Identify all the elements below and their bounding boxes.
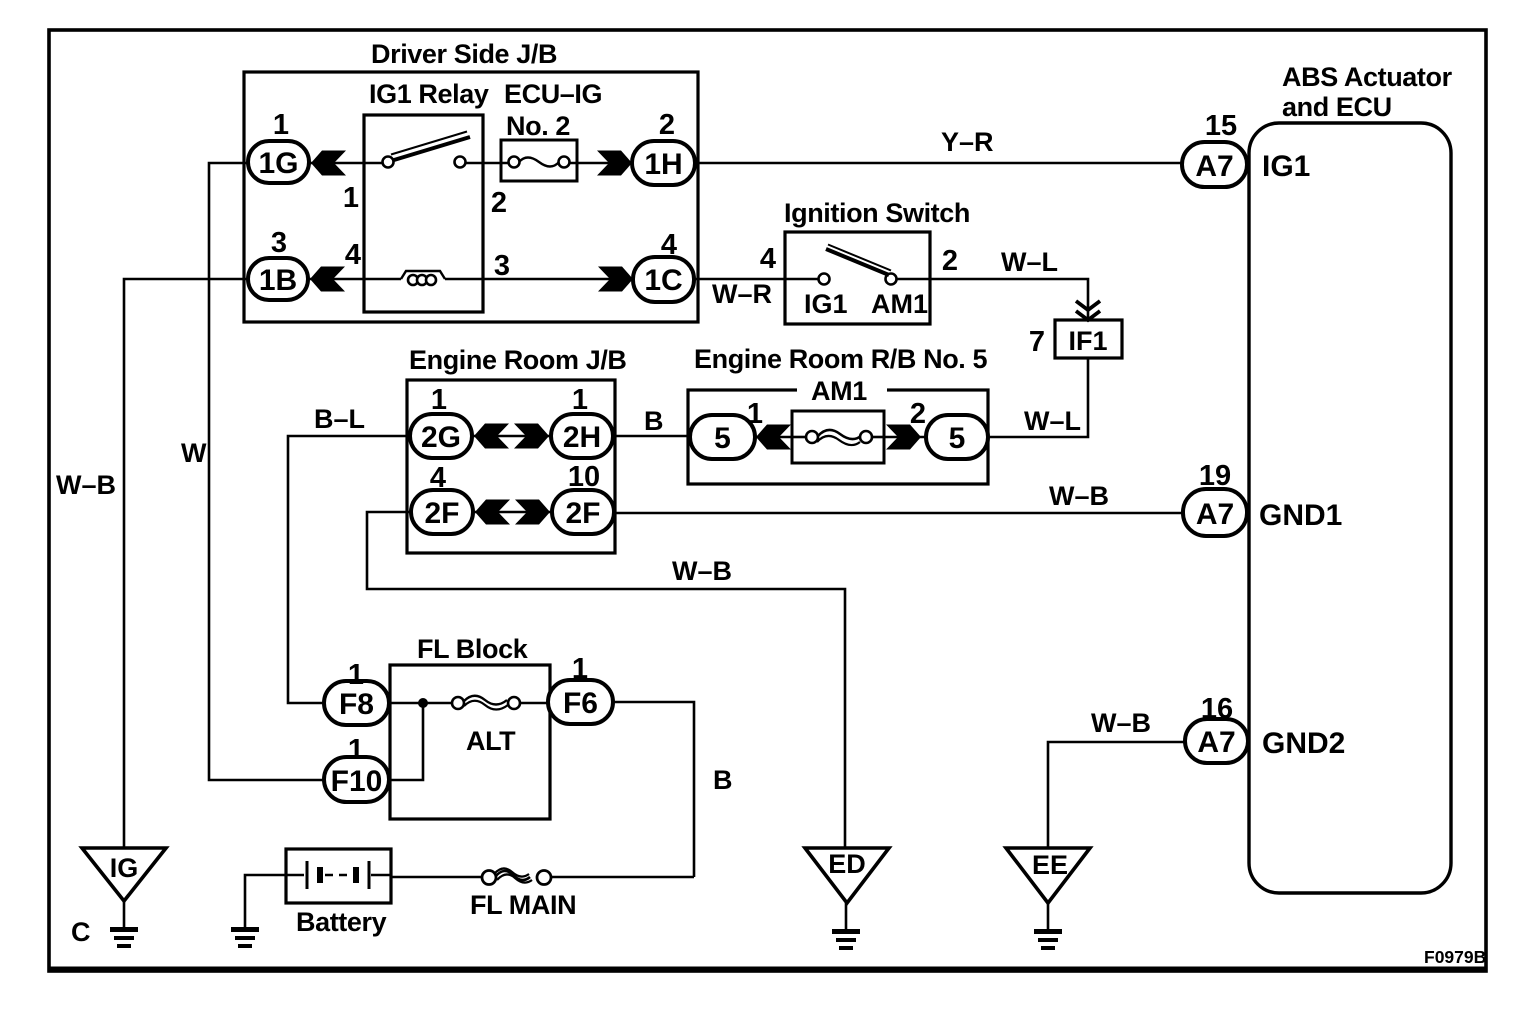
wire W-B 2F right to A7 GND1	[612, 512, 1184, 515]
svg-text:4: 4	[345, 239, 361, 271]
svg-text:2: 2	[942, 245, 958, 277]
ABS Actuator and ECU box	[1249, 123, 1451, 893]
svg-text:C: C	[71, 917, 91, 947]
FL Block box	[390, 665, 550, 819]
wire junction down to F10	[389, 703, 423, 780]
svg-text:IG1: IG1	[804, 289, 848, 319]
svg-text:16: 16	[1201, 693, 1233, 725]
wire ignition switch stubs	[785, 278, 819, 281]
svg-text:ALT: ALT	[466, 726, 516, 756]
wire coil to 1C	[445, 278, 633, 281]
ground symbol under battery	[231, 930, 259, 947]
connector F6	[548, 680, 613, 724]
ground symbol under EE	[1034, 932, 1062, 949]
svg-text:2: 2	[910, 398, 926, 430]
svg-text:W–B: W–B	[1091, 708, 1151, 738]
wire W-L from ignition to IF1	[930, 279, 1088, 320]
connector F8	[324, 681, 389, 725]
Engine Room J/B box	[407, 380, 615, 553]
wire Y-R 1H to A7	[695, 162, 1183, 165]
wire relay row2: 1B to coil	[307, 278, 401, 281]
connector arrow into 1H	[597, 151, 632, 176]
connector arrow into 1G	[311, 151, 346, 176]
svg-text:1: 1	[431, 384, 447, 416]
connector 2F right	[552, 490, 614, 534]
svg-text:1B: 1B	[259, 264, 297, 297]
svg-text:2F: 2F	[565, 497, 600, 530]
wire EE to A7 GND2	[1048, 742, 1186, 849]
wire fuse to 1H	[569, 162, 632, 165]
wire W-B from 1B left, down, to IG ground triangle	[124, 279, 248, 848]
connector F10	[324, 757, 389, 802]
svg-text:Y–R: Y–R	[941, 127, 994, 157]
svg-text:F0979B: F0979B	[1424, 947, 1486, 967]
svg-text:2F: 2F	[424, 497, 459, 530]
connector arrows 2F-2F	[475, 500, 510, 525]
connector 1C	[633, 257, 694, 302]
svg-text:W–L: W–L	[1024, 406, 1081, 436]
svg-text:5: 5	[949, 422, 966, 455]
wire 5 to AM1 fuse	[755, 436, 792, 439]
svg-text:1: 1	[572, 384, 588, 416]
connector A7 pin19	[1183, 489, 1247, 536]
svg-text:1: 1	[747, 398, 763, 430]
fuse AM1	[818, 430, 861, 439]
svg-text:FL Block: FL Block	[417, 634, 529, 664]
connector 1G	[248, 141, 309, 183]
connector 2G	[410, 414, 472, 458]
svg-text:Engine Room J/B: Engine Room J/B	[409, 345, 627, 375]
svg-text:AM1: AM1	[871, 289, 928, 319]
ECU-IG No.2 fuse box	[501, 140, 577, 181]
wire W-R 1C to ignition switch	[694, 278, 785, 281]
wire ED triangle stem	[845, 903, 848, 930]
ground ED triangle	[805, 848, 889, 903]
junction node at FL block	[418, 698, 428, 708]
svg-text:B: B	[713, 765, 733, 795]
connector arrow into 5 right	[886, 425, 921, 450]
svg-text:1: 1	[348, 734, 364, 766]
svg-text:IG1: IG1	[1262, 150, 1310, 183]
fuse ECU-IG No.2	[519, 158, 559, 167]
svg-text:Engine Room R/B No. 5: Engine Room R/B No. 5	[694, 344, 987, 374]
connector arrow into 5 left	[756, 425, 791, 450]
ground EE triangle	[1006, 848, 1090, 903]
svg-text:W–L: W–L	[1001, 247, 1058, 277]
wire EE triangle stem	[1047, 903, 1050, 930]
connector 1B	[248, 258, 308, 300]
svg-text:1C: 1C	[644, 264, 682, 297]
wire battery to FL MAIN	[391, 876, 482, 879]
svg-text:IF1: IF1	[1068, 326, 1107, 356]
svg-text:4: 4	[661, 229, 677, 261]
Battery box	[286, 849, 391, 903]
svg-text:F8: F8	[339, 688, 374, 721]
connector A7 pin15	[1182, 142, 1247, 187]
wire W-B 2F left, down, across, down to ED	[367, 512, 845, 848]
connector 2F left	[411, 490, 473, 534]
svg-text:GND1: GND1	[1259, 499, 1342, 532]
connector arrows 2G-2H	[474, 424, 509, 449]
ground symbol under ED	[832, 932, 860, 949]
svg-text:IG1 Relay: IG1 Relay	[369, 79, 489, 109]
connector 2H	[551, 414, 613, 458]
relay IG1 contact pins	[383, 157, 394, 168]
connector 1H	[632, 141, 695, 185]
svg-text:1: 1	[343, 182, 359, 214]
ground symbol under IG	[110, 930, 138, 947]
svg-text:A7: A7	[1195, 150, 1233, 183]
svg-text:W: W	[181, 438, 207, 468]
svg-text:and ECU: and ECU	[1282, 92, 1392, 122]
svg-text:1G: 1G	[258, 147, 298, 180]
wire W from 1G left, down, to F10	[209, 163, 324, 780]
wire IG triangle stem	[123, 901, 126, 928]
svg-text:7: 7	[1029, 326, 1045, 358]
svg-text:1: 1	[572, 653, 588, 685]
svg-text:3: 3	[494, 250, 510, 282]
svg-text:2H: 2H	[563, 421, 601, 454]
svg-text:5: 5	[714, 422, 731, 455]
connector A7 pin16	[1185, 719, 1248, 763]
connector arrow into 1C	[598, 267, 633, 292]
wire F8 to ALT fuse to F6	[389, 702, 453, 705]
connector 5 left	[690, 415, 755, 459]
svg-text:15: 15	[1205, 110, 1237, 142]
svg-text:4: 4	[760, 243, 776, 275]
svg-text:1: 1	[273, 109, 289, 141]
svg-text:F6: F6	[563, 687, 598, 720]
Driver Side J/B box	[244, 72, 698, 322]
relay switch lever	[394, 137, 470, 160]
svg-text:A7: A7	[1196, 498, 1234, 531]
svg-text:ED: ED	[828, 849, 866, 879]
svg-text:ABS Actuator: ABS Actuator	[1282, 62, 1453, 92]
svg-text:2G: 2G	[421, 421, 461, 454]
svg-text:AM1: AM1	[811, 376, 867, 406]
Ignition Switch box	[785, 232, 930, 324]
svg-text:F10: F10	[331, 765, 383, 798]
wire battery to ground	[245, 875, 286, 928]
svg-text:W–B: W–B	[56, 470, 116, 500]
svg-text:2: 2	[659, 109, 675, 141]
svg-text:W–B: W–B	[1049, 481, 1109, 511]
svg-text:W–R: W–R	[712, 279, 772, 309]
fusible link ALT	[464, 696, 507, 705]
IG1 Relay box	[364, 115, 483, 312]
svg-text:W–B: W–B	[672, 556, 732, 586]
svg-text:Ignition Switch: Ignition Switch	[784, 198, 970, 228]
svg-text:B: B	[644, 406, 664, 436]
svg-text:3: 3	[271, 227, 287, 259]
wire B 2H to 5	[612, 435, 691, 438]
wire 2F to 2F junction	[472, 511, 553, 514]
svg-text:4: 4	[430, 462, 446, 494]
wire IF1 down to 5 connector	[988, 358, 1088, 437]
svg-text:ECU–IG: ECU–IG	[504, 79, 602, 109]
svg-text:FL MAIN: FL MAIN	[470, 890, 576, 920]
IF1 arrow chevrons	[1076, 301, 1100, 320]
wire relay row1: 1G to relay pin	[309, 162, 383, 165]
svg-text:1: 1	[348, 659, 364, 691]
AM1 fuse box	[792, 411, 884, 463]
connector 5 right	[926, 415, 988, 459]
connector arrow into 1B	[310, 267, 345, 292]
svg-text:B–L: B–L	[314, 404, 365, 434]
wire B from F6 right, down to FL MAIN	[613, 702, 694, 877]
svg-text:10: 10	[568, 461, 600, 493]
fusible link FL MAIN	[495, 871, 530, 880]
svg-text:A7: A7	[1197, 726, 1235, 759]
Engine Room R/B No.5 box	[688, 390, 988, 484]
svg-text:19: 19	[1199, 460, 1231, 492]
battery B1 symbol	[286, 861, 391, 889]
wire 2G to 2H junction	[471, 435, 552, 438]
IF1 box	[1055, 320, 1122, 358]
relay coil	[401, 271, 445, 279]
svg-text:No. 2: No. 2	[506, 111, 570, 141]
svg-text:EE: EE	[1032, 850, 1068, 880]
svg-text:IG: IG	[110, 853, 139, 883]
svg-text:Battery: Battery	[296, 907, 387, 937]
ignition switch pins	[819, 274, 830, 285]
wire B-L 2G left down to F8	[288, 436, 411, 703]
ground IG triangle	[82, 848, 166, 901]
ignition switch lever	[826, 249, 889, 275]
svg-text:GND2: GND2	[1262, 727, 1345, 760]
svg-text:2: 2	[491, 187, 507, 219]
svg-text:1H: 1H	[644, 148, 682, 181]
wire relay pin to fuse	[465, 162, 509, 165]
svg-text:Driver Side J/B: Driver Side J/B	[371, 39, 557, 69]
